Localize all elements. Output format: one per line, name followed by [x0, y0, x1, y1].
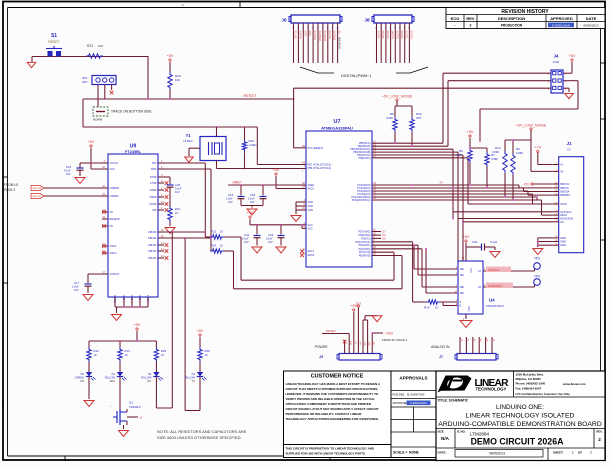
svg-text:16V: 16V — [66, 172, 71, 176]
svg-text:TXD: TXD — [151, 161, 156, 165]
svg-text:GND: GND — [308, 209, 314, 212]
svg-text:OPT: OPT — [82, 80, 88, 84]
svg-text:D3/PD3: D3/PD3 — [395, 31, 397, 40]
svg-text:16V: 16V — [175, 190, 180, 194]
svg-text:1K: 1K — [435, 306, 439, 310]
svg-text:TP4: TP4 — [534, 275, 540, 279]
svg-text:MOSI\SDA: MOSI\SDA — [488, 284, 502, 288]
svg-text:YELLOW: YELLOW — [104, 376, 115, 380]
svg-text:V+: V+ — [560, 163, 564, 167]
svg-text:+5V: +5V — [197, 329, 204, 333]
svg-text:DBSCL: DBSCL — [560, 186, 569, 190]
svg-text:PRODUCTION: PRODUCTION — [501, 23, 523, 27]
svg-text:R10: R10 — [495, 146, 501, 150]
svg-text:09/05/2013: 09/05/2013 — [583, 23, 598, 27]
svg-text:1K: 1K — [220, 230, 223, 234]
svg-text:GND: GND — [560, 236, 566, 240]
svg-text:DBSDA: DBSDA — [560, 190, 569, 194]
svg-text:MISO: MISO — [560, 213, 567, 217]
svg-text:C20: C20 — [472, 240, 478, 244]
svg-text:U9: U9 — [130, 144, 137, 150]
svg-text:16V: 16V — [268, 240, 273, 244]
svg-text:ECO: ECO — [451, 16, 460, 21]
svg-text:OF: OF — [578, 451, 582, 455]
svg-text:D.EDELMAN: D.EDELMAN — [552, 23, 570, 27]
svg-text:R31: R31 — [175, 207, 181, 211]
svg-text:VERIFY PROPER AND RELIABLE OPE: VERIFY PROPER AND RELIABLE OPERATION IN … — [286, 397, 376, 401]
svg-text:1K: 1K — [125, 353, 128, 357]
svg-text:LINDUINO ONE:: LINDUINO ONE: — [496, 404, 544, 411]
svg-text:THIS CIRCUIT IS PROPRIETARY TO: THIS CIRCUIT IS PROPRIETARY TO LINEAR TE… — [286, 447, 374, 451]
svg-text:TITLE: SCHEMATIC: TITLE: SCHEMATIC — [438, 399, 469, 403]
svg-text:NOTE: ALL RESISTORS AND CAPACI: NOTE: ALL RESISTORS AND CAPACITORS ARE — [157, 429, 247, 434]
svg-text:SCL/A5: SCL/A5 — [294, 31, 297, 40]
svg-text:APPROVALS: APPROVALS — [399, 376, 427, 381]
svg-text:GND: GND — [130, 295, 133, 301]
svg-text:FROM J5, PAGE 2: FROM J5, PAGE 2 — [382, 338, 407, 342]
svg-text:0.1uF: 0.1uF — [175, 187, 182, 191]
svg-text:U4: U4 — [489, 298, 495, 303]
svg-text:YELLOW: YELLOW — [141, 376, 152, 380]
svg-text:100: 100 — [98, 44, 103, 48]
svg-text:+7V: +7V — [534, 146, 541, 150]
svg-text:FT245RL: FT245RL — [125, 150, 142, 154]
svg-text:D5/PD5: D5/PD5 — [386, 31, 388, 40]
svg-text:APPROVED: APPROVED — [550, 16, 573, 21]
svg-text:C22: C22 — [244, 233, 250, 237]
svg-text:PD7(AIN1): PD7(AIN1) — [358, 231, 370, 234]
svg-text:D13/SCK: D13/SCK — [313, 31, 315, 41]
svg-text:PB0(ICP1): PB0(ICP1) — [359, 157, 371, 160]
svg-text:VCC: VCC — [469, 268, 472, 273]
svg-text:CBUS0: CBUS0 — [148, 230, 157, 234]
svg-text:PERFORMANCE OR RELIABILITY. CO: PERFORMANCE OR RELIABILITY. CONTACT LINE… — [286, 412, 363, 416]
svg-text:OPT: OPT — [416, 116, 422, 120]
svg-text:SCALE =: SCALE = — [393, 451, 407, 455]
svg-text:D9/PWM: D9/PWM — [333, 31, 335, 40]
svg-text:4.99K: 4.99K — [516, 151, 523, 155]
svg-text:GND: GND — [560, 240, 566, 244]
svg-text:USBDM: USBDM — [110, 186, 119, 190]
svg-text:D3: D3 — [192, 372, 196, 376]
svg-text:VCC: VCC — [110, 167, 116, 171]
svg-text:RESET: RESET — [48, 40, 59, 44]
svg-text:M.JUANTONS: M.JUANTONS — [407, 393, 425, 397]
svg-text:PC6 (RESET): PC6 (RESET) — [308, 147, 324, 150]
svg-text:GND: GND — [560, 243, 566, 247]
svg-text:CIRCUIT THAT MEETS CUSTOMER-SU: CIRCUIT THAT MEETS CUSTOMER-SUPPLIED SPE… — [286, 387, 379, 391]
svg-text:GND: GND — [308, 201, 314, 204]
svg-text:10K: 10K — [175, 78, 180, 82]
svg-text:R21: R21 — [87, 44, 93, 48]
svg-text:16V: 16V — [74, 288, 79, 292]
svg-text:PCB DES.: PCB DES. — [393, 393, 406, 397]
svg-text:SDA/A4: SDA/A4 — [298, 31, 301, 40]
svg-text:C19: C19 — [228, 193, 234, 197]
svg-text:VIN: VIN — [372, 342, 374, 346]
svg-text:D0/PD0: D0/PD0 — [409, 31, 411, 40]
svg-text:+5V_LOW_NOISE: +5V_LOW_NOISE — [516, 124, 547, 128]
svg-text:R8: R8 — [390, 112, 394, 116]
svg-text:2B1: 2B1 — [460, 292, 465, 295]
svg-text:USB_DM: USB_DM — [32, 188, 41, 190]
svg-text:Q1: Q1 — [129, 401, 133, 405]
svg-text:RESET: RESET — [244, 93, 258, 98]
svg-text:GND: GND — [467, 306, 470, 312]
svg-text:3V: 3V — [560, 169, 563, 173]
svg-text:GND: GND — [138, 295, 141, 301]
svg-text:ON: ON — [80, 379, 84, 383]
svg-text:+5V: +5V — [463, 235, 470, 239]
svg-text:RTS#: RTS# — [150, 175, 157, 179]
svg-text:SHEET: SHEET — [553, 451, 563, 455]
svg-text:R28: R28 — [205, 349, 211, 353]
svg-text:OSC2: OSC2 — [110, 251, 118, 255]
svg-text:CUSTOMER NOTICE: CUSTOMER NOTICE — [311, 374, 364, 380]
svg-text:R7: R7 — [491, 153, 495, 157]
svg-text:1B0: 1B0 — [460, 268, 465, 271]
svg-text:GND: GND — [363, 342, 365, 347]
svg-text:CS: CS — [560, 220, 564, 224]
svg-text:J6: J6 — [281, 18, 287, 24]
svg-text:R12: R12 — [94, 349, 100, 353]
svg-text:YELLOW: YELLOW — [184, 376, 195, 380]
svg-text:TX: TX — [192, 379, 196, 383]
svg-text:C16: C16 — [66, 165, 72, 169]
svg-text:D1: D1 — [112, 372, 116, 376]
svg-text:AREF: AREF — [303, 31, 306, 38]
svg-text:CBUS1: CBUS1 — [148, 236, 157, 240]
svg-text:S1: S1 — [51, 33, 57, 39]
svg-text:VCC: VCC — [308, 227, 313, 230]
svg-text:LTC Confidential-For Customer: LTC Confidential-For Customer Use Only — [516, 392, 571, 396]
svg-text:VN810LF: VN810LF — [129, 405, 141, 409]
svg-text:AVCC: AVCC — [308, 188, 315, 191]
svg-text:NONE: NONE — [409, 451, 420, 455]
svg-text:GND: GND — [368, 342, 370, 347]
svg-text:USB_DP: USB_DP — [32, 196, 41, 198]
svg-text:NC: NC — [110, 210, 114, 214]
svg-text:1K: 1K — [220, 244, 223, 248]
svg-text:PAGE 2: PAGE 2 — [4, 188, 16, 192]
svg-text:TP3: TP3 — [534, 257, 540, 261]
svg-text:C23: C23 — [268, 233, 274, 237]
svg-text:ARDUINO-COMPATIBLE DEMONSTRATI: ARDUINO-COMPATIBLE DEMONSTRATION BOARD — [438, 421, 602, 428]
svg-text:DATE: DATE — [586, 16, 597, 21]
svg-text:SCK\SCL: SCK\SCL — [488, 268, 500, 272]
svg-text:C25: C25 — [175, 183, 181, 187]
svg-text:TECHNOLOGY: TECHNOLOGY — [476, 386, 507, 391]
svg-text:+5V: +5V — [523, 182, 530, 186]
svg-text:4.99K: 4.99K — [386, 116, 393, 120]
svg-text:D.EDELMAN: D.EDELMAN — [410, 401, 426, 405]
svg-text:VCC: VCC — [308, 224, 313, 227]
svg-text:REVISION HISTORY: REVISION HISTORY — [501, 9, 549, 15]
svg-text:1K: 1K — [161, 353, 164, 357]
svg-text:RXD: RXD — [151, 167, 157, 171]
svg-text:1: 1 — [572, 451, 574, 455]
svg-text:GND: GND — [308, 31, 310, 36]
svg-text:16 MHz: 16 MHz — [183, 139, 193, 143]
svg-text:POWER: POWER — [315, 345, 328, 349]
svg-text:1K: 1K — [205, 353, 208, 357]
svg-text:16V: 16V — [250, 200, 255, 204]
svg-text:CIRCUIT BOARD LAYOUT MAY SIGNI: CIRCUIT BOARD LAYOUT MAY SIGNIFICANTLY A… — [286, 407, 379, 411]
svg-text:TEST: TEST — [146, 295, 149, 302]
svg-text:ATMEGA328PAU: ATMEGA328PAU — [321, 125, 353, 130]
svg-text:PC5(ADC5/SCL): PC5(ADC5/SCL) — [352, 199, 371, 202]
svg-text:VCCIO: VCCIO — [110, 161, 118, 165]
svg-text:D2/PD2: D2/PD2 — [400, 31, 402, 40]
svg-text:D7/PD7: D7/PD7 — [377, 31, 379, 40]
svg-text:09/05/2013: 09/05/2013 — [489, 452, 505, 456]
svg-text:APPROVED: APPROVED — [393, 401, 408, 405]
svg-text:DBDMO: DBDMO — [560, 193, 570, 197]
svg-text:USBDP: USBDP — [110, 194, 119, 198]
svg-text:2: 2 — [598, 437, 601, 442]
svg-text:R22: R22 — [211, 230, 217, 234]
svg-text:RESET#: RESET# — [110, 217, 121, 221]
svg-text:SIZE 0603 UNLESS OTHERWISE SPE: SIZE 0603 UNLESS OTHERWISE SPECIFIED. — [157, 435, 242, 440]
svg-text:J1: J1 — [566, 141, 572, 146]
svg-text:1.0uF: 1.0uF — [72, 285, 79, 289]
svg-text:2: 2 — [590, 451, 592, 455]
svg-text:+5V_LOW_NOISE: +5V_LOW_NOISE — [382, 95, 413, 99]
svg-text:D2: D2 — [81, 372, 85, 376]
svg-text:0.1uF: 0.1uF — [266, 237, 273, 241]
svg-text:J7: J7 — [439, 355, 443, 359]
svg-text:D12/MISO: D12/MISO — [318, 31, 320, 42]
svg-text:R13: R13 — [125, 349, 131, 353]
svg-text:R29: R29 — [161, 349, 167, 353]
svg-text:1630 McCarthy Blvd.: 1630 McCarthy Blvd. — [516, 373, 544, 377]
svg-text:REV: REV — [466, 16, 475, 21]
svg-text:16V: 16V — [244, 240, 249, 244]
svg-text:REV.: REV. — [596, 430, 602, 434]
svg-text:LINEAR TECHNOLOGY HAS MADE A B: LINEAR TECHNOLOGY HAS MADE A BEST EFFORT… — [286, 382, 381, 386]
svg-text:1B1: 1B1 — [460, 274, 465, 277]
svg-text:GREEN: GREEN — [75, 376, 84, 380]
svg-text:DESCRIPTION: DESCRIPTION — [498, 16, 525, 21]
svg-text:J8: J8 — [364, 18, 370, 24]
svg-text:GPIO: GPIO — [560, 202, 567, 206]
svg-text:SUPPLIED FOR USE WITH LINEAR T: SUPPLIED FOR USE WITH LINEAR TECHNOLOGY … — [286, 452, 366, 456]
svg-text:2: 2 — [470, 24, 472, 28]
svg-text:D10/SS: D10/SS — [328, 31, 330, 39]
svg-text:+5V: +5V — [247, 211, 254, 215]
svg-text:GND: GND — [308, 205, 314, 208]
svg-text:NORM: NORM — [93, 118, 103, 122]
svg-text:R6: R6 — [459, 149, 463, 153]
svg-text:1 MEG: 1 MEG — [249, 143, 257, 147]
svg-text:R19: R19 — [424, 306, 430, 310]
svg-text:1K: 1K — [175, 211, 178, 215]
svg-text:CBUS4: CBUS4 — [148, 256, 157, 260]
svg-text:+5V: +5V — [273, 168, 280, 172]
svg-text:+VIN: +VIN — [385, 332, 393, 336]
svg-text:PD0(RXD): PD0(RXD) — [359, 255, 371, 258]
svg-text:TECHNOLOGY APPLICATIONS ENGINE: TECHNOLOGY APPLICATIONS ENGINEERING FOR … — [286, 417, 380, 421]
svg-text:R30: R30 — [416, 112, 422, 116]
svg-text:4.99K: 4.99K — [455, 153, 462, 157]
svg-text:D6/PD6: D6/PD6 — [381, 31, 383, 40]
svg-text:D4: D4 — [148, 372, 152, 376]
svg-text:R16: R16 — [249, 139, 255, 143]
svg-text:Phone: (408)432-1900: Phone: (408)432-1900 — [516, 382, 546, 386]
svg-text:4.99K: 4.99K — [491, 157, 498, 161]
svg-text:RESET: RESET — [326, 329, 336, 333]
svg-text:APPLICATION. COMPONENT SUBSTIT: APPLICATION. COMPONENT SUBSTITUTION AND … — [286, 402, 372, 406]
svg-text:N/A: N/A — [441, 436, 450, 441]
svg-text:Fax: (408)434-0507: Fax: (408)434-0507 — [516, 386, 542, 390]
svg-text:DSR#: DSR# — [150, 195, 157, 199]
svg-text:+5V: +5V — [467, 130, 474, 134]
svg-text:AREF: AREF — [232, 181, 241, 185]
svg-text:R24: R24 — [211, 244, 217, 248]
svg-text:DEMO CIRCUIT 2026A: DEMO CIRCUIT 2026A — [471, 437, 565, 447]
svg-text:FSA2257MUX: FSA2257MUX — [486, 304, 504, 308]
svg-text:3V3OUT: 3V3OUT — [110, 272, 121, 276]
svg-text:ICSP: ICSP — [553, 60, 560, 64]
svg-text:SIZE: SIZE — [438, 430, 444, 434]
svg-text:TRACE ON BOTTOM SIDE: TRACE ON BOTTOM SIDE — [111, 110, 152, 114]
svg-text:ANALOG IN: ANALOG IN — [431, 345, 450, 349]
svg-text:ADC6: ADC6 — [308, 254, 315, 257]
svg-text:PB6 (XTAL1/TOSC1): PB6 (XTAL1/TOSC1) — [308, 167, 332, 170]
svg-text:SDA: SDA — [110, 379, 116, 383]
svg-text:CTS#: CTS# — [150, 181, 157, 185]
svg-text:DTR#: DTR# — [150, 188, 157, 192]
svg-text:+5V: +5V — [88, 140, 95, 144]
svg-text:PB7 (XTAL2/TOSC2): PB7 (XTAL2/TOSC2) — [308, 164, 332, 167]
svg-text:+5V: +5V — [569, 54, 576, 58]
svg-text:RI#: RI# — [152, 208, 157, 212]
svg-text:PD3(INT1): PD3(INT1) — [359, 244, 371, 247]
svg-text:DIGITAL(PWM~): DIGITAL(PWM~) — [341, 73, 372, 78]
svg-text:HOWEVER, IT REMAINS THE CUSTOM: HOWEVER, IT REMAINS THE CUSTOMER'S RESPO… — [286, 392, 379, 396]
svg-text:DATE:: DATE: — [438, 451, 447, 455]
svg-text:LINEAR TECHNOLOGY ISOLATED: LINEAR TECHNOLOGY ISOLATED — [466, 413, 575, 420]
svg-text:Y1: Y1 — [185, 133, 191, 138]
svg-text:RX: RX — [147, 379, 151, 383]
svg-text:U7: U7 — [333, 119, 340, 125]
svg-text:D1/PD1: D1/PD1 — [405, 31, 407, 40]
svg-text:+5V: +5V — [134, 323, 141, 327]
svg-text:GND: GND — [122, 295, 125, 301]
svg-text:FROM U1: FROM U1 — [4, 183, 19, 187]
svg-text:R9: R9 — [516, 147, 520, 151]
svg-text:CBUS2: CBUS2 — [148, 243, 157, 247]
svg-text:2A: 2A — [478, 286, 481, 289]
svg-text:C18: C18 — [250, 193, 256, 197]
svg-text:www.linear.com: www.linear.com — [562, 382, 586, 386]
svg-text:CBUS3: CBUS3 — [148, 249, 157, 253]
svg-text:0.1uF: 0.1uF — [64, 169, 71, 173]
svg-text:C17: C17 — [74, 281, 80, 285]
svg-text:OSC1: OSC1 — [110, 244, 118, 248]
svg-text:D11/MOSI: D11/MOSI — [323, 31, 325, 42]
svg-text:B: B — [2, 399, 4, 403]
svg-text:DCD#: DCD# — [149, 202, 157, 206]
svg-text:1K: 1K — [94, 353, 97, 357]
svg-text:0.1uF: 0.1uF — [248, 197, 255, 201]
svg-text:2B0: 2B0 — [460, 286, 465, 289]
svg-text:DBVCC: DBVCC — [560, 182, 569, 186]
svg-text:0.1uF: 0.1uF — [490, 240, 498, 244]
svg-text:IC NO.: IC NO. — [457, 430, 466, 434]
svg-text:1.0uF: 1.0uF — [226, 197, 233, 201]
svg-text:NC: NC — [110, 224, 114, 228]
svg-text:J3: J3 — [319, 355, 323, 359]
svg-text:ADC7: ADC7 — [308, 250, 315, 253]
svg-text:MOSI/SCK: MOSI/SCK — [338, 37, 341, 50]
svg-text:+5V: +5V — [167, 54, 174, 58]
svg-text:16V: 16V — [228, 200, 233, 204]
svg-text:J4: J4 — [554, 54, 559, 59]
svg-text:0.1uF: 0.1uF — [242, 237, 249, 241]
svg-text:D4/PD4: D4/PD4 — [391, 31, 393, 40]
svg-text:1A: 1A — [478, 270, 481, 273]
svg-text:Milpitas, CA 95035: Milpitas, CA 95035 — [516, 377, 542, 381]
